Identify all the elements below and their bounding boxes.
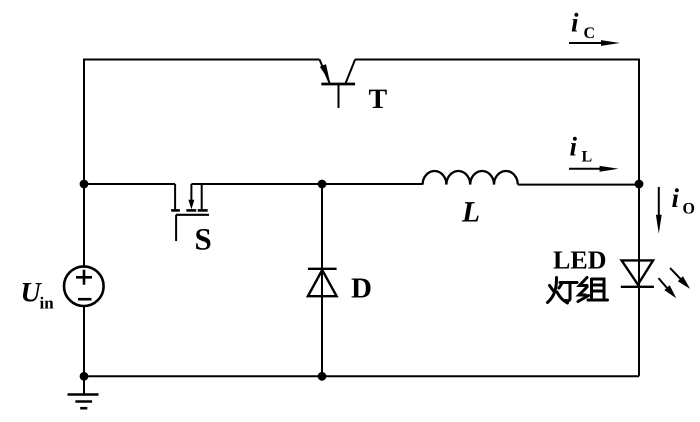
body electrode bar of S: [186, 209, 196, 212]
drain lead of S: [201, 184, 203, 209]
anode triangle of LED: [622, 260, 654, 284]
collector lead of T: [345, 60, 355, 85]
emitter lead of T with arrow: [320, 60, 331, 85]
cathode bar of LED: [621, 286, 654, 288]
node: middle diode junction: [318, 180, 327, 189]
node: middle-left junction: [80, 180, 89, 189]
winding of L: [423, 171, 518, 185]
voltage source Uin: [23, 266, 104, 308]
wire: middle rail right segment: [191, 183, 639, 186]
wire: left rail between middle junction and source: [83, 184, 85, 267]
base bar of T: [321, 83, 355, 86]
plus sign: [76, 270, 92, 285]
drain electrode bar of S: [198, 209, 208, 212]
node: middle-right junction: [635, 180, 644, 189]
gate electrode of S: [176, 214, 209, 216]
text iC: [572, 13, 579, 32]
text iO: [672, 188, 679, 207]
diode D: [308, 269, 371, 298]
label D: [352, 279, 371, 298]
text iL: [570, 137, 577, 156]
cathode bar of D: [308, 268, 337, 270]
arrow iL: [569, 168, 602, 170]
wire: middle rail left segment: [84, 183, 175, 185]
node: bottom-left junction: [80, 372, 89, 381]
gate lead of S: [175, 215, 177, 241]
wire: bottom rail: [84, 375, 639, 377]
anode triangle of D: [308, 270, 337, 296]
source lead of S: [174, 184, 176, 209]
current label iL: [569, 137, 619, 172]
base lead of T: [338, 84, 340, 108]
light emission arrow 2: [659, 278, 669, 290]
label 灯组 (drawn as strokes): [548, 278, 608, 304]
ground: [68, 376, 99, 408]
label LED: [553, 251, 605, 268]
source electrode bar of S: [171, 209, 180, 212]
inductor L: [423, 171, 518, 222]
MOSFET S: [171, 184, 210, 250]
wire: left rail top (with top-left corner) and top rail left segment: [84, 60, 320, 185]
current label iO: [656, 187, 694, 234]
arrow iC: [569, 42, 603, 44]
source circle: [64, 266, 104, 306]
wire: top rail right segment and right rail: [355, 60, 639, 377]
body arrow of S: [190, 184, 192, 201]
arrow iO: [658, 187, 660, 216]
wire: diode branch vertical: [321, 184, 323, 376]
current label iC: [569, 13, 620, 46]
label Uin: [23, 283, 42, 302]
LED: [621, 260, 690, 298]
transistor T: [320, 60, 387, 109]
label L: [462, 202, 479, 221]
ground stub: [83, 376, 85, 394]
label T: [369, 90, 387, 108]
ground bar 1: [68, 393, 99, 396]
light emission arrow 1: [670, 268, 682, 281]
ground bar 3: [80, 407, 87, 410]
minus sign: [78, 298, 92, 301]
node: bottom diode junction: [318, 372, 327, 381]
label S: [196, 229, 210, 250]
wire: left rail below source: [83, 306, 85, 376]
ground bar 2: [75, 400, 92, 403]
